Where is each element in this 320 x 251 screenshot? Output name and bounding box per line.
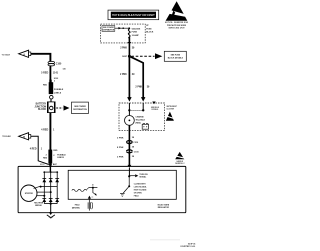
svg-text:BLOCK DETAILS: BLOCK DETAILS [168, 57, 184, 60]
wire PNK 39 from fuse [128, 38, 130, 56]
svg-text:REGULATOR: REGULATOR [158, 206, 170, 209]
ground wire [50, 204, 52, 213]
label 4 RED 1 [41, 128, 55, 131]
svg-text:4 RED: 4 RED [30, 147, 37, 150]
fusible link A [49, 80, 54, 95]
svg-text:(RED): (RED) [136, 123, 142, 125]
svg-text:S110: S110 [40, 164, 44, 166]
wire: main battery feed down [49, 113, 51, 151]
svg-text:RED: RED [53, 150, 58, 152]
ground terminal arrow [49, 212, 53, 215]
fusible link B labels [43, 150, 66, 160]
header box HOT IN RUN [108, 10, 159, 20]
wire into regulator from L [128, 168, 130, 176]
field brushes [88, 199, 93, 211]
wires inside cluster [128, 103, 144, 116]
svg-text:BLOCK: BLOCK [38, 109, 47, 111]
stator tap C [37, 195, 45, 197]
svg-text:B: B [23, 136, 25, 139]
svg-text:2 PNK: 2 PNK [117, 156, 124, 158]
svg-text:4 RED: 4 RED [41, 128, 48, 131]
connector C100 [48, 61, 62, 66]
instrument cluster dashed box [119, 103, 165, 130]
cluster label above ESD symbol [166, 106, 176, 110]
svg-text:SERVICING UNIT: SERVICING UNIT [169, 28, 186, 30]
field label [72, 205, 80, 210]
svg-text:2 PNK: 2 PNK [117, 137, 124, 139]
transistor [93, 188, 97, 196]
svg-text:STATOR: STATOR [25, 192, 33, 195]
svg-text:TO BAT: TO BAT [2, 53, 11, 56]
wire labels 2 PNK 39 (right) [135, 86, 150, 88]
svg-text:BRIDGE: BRIDGE [35, 205, 42, 207]
svg-text:FIELD: FIELD [134, 195, 140, 197]
svg-text:2: 2 [53, 155, 54, 157]
svg-text:CLOSES WITH: CLOSES WITH [134, 183, 146, 185]
svg-text:8 PNK: 8 PNK [117, 147, 124, 149]
svg-text:TELLTALE: TELLTALE [136, 119, 146, 122]
off-page arrow A (to battery) [19, 50, 31, 57]
fusible link A label [54, 89, 64, 94]
see fuse block details box [164, 51, 186, 61]
svg-text:JUNCTION: JUNCTION [34, 106, 46, 108]
svg-text:FUSE: FUSE [132, 32, 138, 34]
ESD symbol (cluster) [166, 112, 174, 121]
footer rule [150, 239, 180, 241]
svg-text:(BROWN): (BROWN) [72, 207, 80, 209]
svg-text:LINK A: LINK A [54, 91, 62, 94]
wire below cluster [128, 125, 130, 166]
svg-text:2 PNK: 2 PNK [120, 74, 127, 76]
wire into generator [49, 165, 51, 173]
ESD symbol (page notice) [166, 1, 188, 21]
terminal at generator entry (L) [128, 165, 132, 168]
dashed arrow to fuse block details [131, 53, 162, 59]
svg-text:10 AMP: 10 AMP [132, 34, 140, 37]
terminal at fuse block exit [128, 42, 132, 45]
fuse labels [132, 28, 141, 37]
svg-text:S207: S207 [122, 56, 128, 58]
svg-text:FUSIBLE: FUSIBLE [54, 89, 64, 91]
diode 1 [42, 179, 46, 183]
regulator box [68, 170, 176, 199]
diode 5 [49, 198, 53, 202]
see power distribution box [72, 102, 89, 113]
footer text [180, 244, 196, 249]
splice S207 [128, 55, 131, 58]
dashed arrow to power distribution [56, 105, 69, 110]
svg-text:HOT IN RUN, BULB TEST OR START: HOT IN RUN, BULB TEST OR START [112, 13, 155, 17]
diode 3 [55, 179, 59, 183]
off-page arrow B [19, 133, 31, 140]
see power distribution box (in fuse block) [102, 26, 115, 32]
svg-text:BATTERY: BATTERY [36, 103, 47, 106]
I/P fuse block dashed box [101, 24, 146, 43]
I/P FUSE BLOCK label [146, 25, 154, 33]
svg-text:CLUSTER: CLUSTER [166, 108, 174, 110]
rectifier bridge top bus [43, 171, 58, 173]
wire stub into junction block [50, 99, 52, 102]
regulator label [157, 203, 169, 208]
svg-text:BLOCK: BLOCK [146, 31, 154, 33]
svg-text:RED: RED [43, 85, 48, 87]
svg-text:2 PNK: 2 PNK [120, 48, 127, 50]
svg-text:SEE BULB: SEE BULB [151, 107, 160, 109]
svg-text:SEE FUSE: SEE FUSE [171, 55, 181, 57]
svg-text:SEE POWER: SEE POWER [74, 106, 86, 108]
wire labels 2 PNK 39 (left) [120, 74, 135, 76]
indicator bulb [124, 116, 134, 126]
diode to case [88, 196, 93, 199]
stator [21, 185, 37, 201]
wire label 2 PNK 39 [120, 47, 135, 49]
wire down from C100 [49, 65, 51, 80]
label 8 PNK 39 [117, 147, 135, 149]
wire from arrow B [31, 136, 49, 164]
svg-text:C100: C100 [56, 64, 62, 66]
bridge rails [44, 172, 57, 204]
svg-text:TO ELEK: TO ELEK [2, 136, 11, 138]
diode 2 [49, 179, 53, 183]
svg-text:TURN ON: TURN ON [139, 174, 148, 176]
stator tap B [37, 191, 52, 193]
svg-text:COURTESY G.M.: COURTESY G.M. [180, 246, 196, 248]
connector C210 [126, 141, 139, 145]
stator tap A [34, 186, 58, 189]
turn on signal arrow [129, 174, 148, 179]
diode 4 [42, 198, 46, 202]
junction dot at BAT terminal [49, 163, 52, 166]
label 2 PNK 39 [117, 156, 135, 158]
label 2 PNK 39 [117, 137, 135, 139]
svg-text:92 8F 06: 92 8F 06 [188, 244, 195, 246]
svg-text:RED: RED [43, 158, 48, 160]
fusible link B [48, 150, 52, 164]
field coil [72, 189, 87, 191]
node L [128, 175, 130, 177]
switch to ground [123, 176, 130, 193]
bridge bottom bus [44, 203, 57, 205]
svg-text:DISTRIBUTION: DISTRIBUTION [103, 30, 115, 32]
wire: battery feed [31, 54, 51, 62]
ESD notice text [165, 22, 189, 29]
wire to fuse with connector arrow [115, 27, 129, 29]
bulb label [136, 115, 146, 124]
cluster connector terminal (right pin) [141, 98, 145, 102]
bridge label [34, 203, 44, 207]
ground symbol [47, 215, 55, 218]
svg-text:GAUGES: GAUGES [132, 28, 141, 31]
earth mark [120, 193, 125, 196]
battery junction block [47, 102, 55, 113]
svg-text:2 PNK: 2 PNK [135, 86, 142, 88]
connector C150 [126, 150, 139, 154]
svg-text:CHARGE: CHARGE [136, 115, 145, 118]
ESD symbol (generator) [175, 152, 185, 165]
connector block on cluster edge [142, 123, 148, 129]
svg-text:A: A [23, 54, 25, 57]
label 5 RED 1141 [41, 71, 59, 74]
switch note [134, 183, 147, 197]
svg-text:NOTICE: OBSERVE ESD: NOTICE: OBSERVE ESD [165, 22, 189, 24]
label S102 / 2 [54, 78, 58, 83]
fuse GAUGES 10A [128, 27, 130, 38]
svg-text:OR OPEN: OR OPEN [134, 192, 143, 194]
label 4 RED 1 (arrow B wire) [30, 147, 43, 150]
wire: right branch diagonal [131, 57, 144, 100]
svg-text:5 RED: 5 RED [41, 71, 48, 74]
svg-text:HIGH VOLTAGE: HIGH VOLTAGE [134, 188, 147, 191]
generator box [18, 166, 186, 212]
coil link [87, 188, 89, 190]
svg-text:2: 2 [46, 155, 47, 157]
cluster connector terminal (left pin) [127, 98, 131, 102]
svg-text:FUSE: FUSE [146, 28, 152, 30]
svg-text:PRECAUTIONS WHEN: PRECAUTIONS WHEN [167, 24, 187, 27]
svg-text:2: 2 [54, 81, 55, 83]
svg-text:1141: 1141 [53, 71, 59, 74]
battery junction block label [34, 103, 46, 112]
svg-text:SIGNAL: SIGNAL [139, 176, 147, 179]
svg-text:INSTRUMENT: INSTRUMENT [166, 106, 176, 108]
svg-text:LINK B: LINK B [57, 157, 64, 159]
wire: left branch down [128, 56, 130, 99]
field node [89, 183, 98, 188]
svg-text:145: 145 [63, 67, 66, 70]
diode 6 [55, 198, 59, 202]
svg-text:S102: S102 [54, 78, 58, 80]
svg-text:LOW VOLTAGE,: LOW VOLTAGE, [134, 185, 147, 188]
see bulb details note [151, 102, 160, 112]
svg-text:DISTRIBUTION: DISTRIBUTION [73, 109, 87, 111]
ring terminal [50, 95, 54, 99]
